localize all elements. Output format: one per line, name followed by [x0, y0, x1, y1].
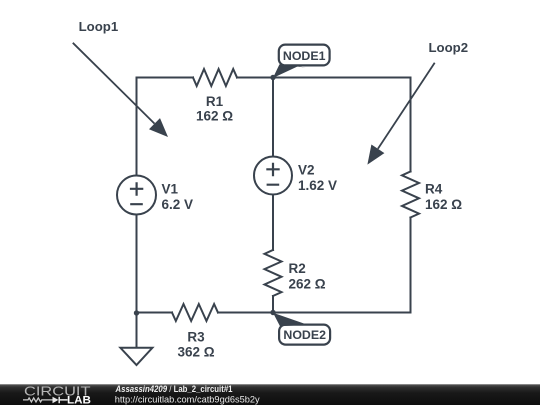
footer bar — [0, 384, 540, 405]
svg-text:R2: R2 — [289, 261, 306, 276]
svg-text:R3: R3 — [187, 330, 205, 345]
svg-text:162 Ω: 162 Ω — [196, 109, 233, 124]
label NODE2 — [273, 313, 330, 345]
svg-text:6.2 V: 6.2 V — [162, 197, 194, 212]
wire left branch lower — [136, 215, 138, 314]
svg-text:Loop2: Loop2 — [429, 40, 469, 55]
wire top-left horizontal — [137, 77, 193, 79]
wire middle branch upper — [272, 78, 274, 157]
value label R2 — [289, 261, 326, 292]
wire ground stub — [136, 313, 138, 348]
resistor R1 — [193, 69, 237, 86]
node junction dot NODE2 — [270, 310, 275, 315]
svg-text:Assassin4209 / Lab_2_circuit#1: Assassin4209 / Lab_2_circuit#1 — [115, 384, 233, 394]
svg-text:LAB: LAB — [67, 395, 91, 405]
wire middle branch mid — [272, 195, 274, 251]
logo diode — [53, 397, 59, 403]
label NODE1 — [273, 45, 330, 78]
svg-text:http://circuitlab.com/catb9gd6: http://circuitlab.com/catb9gd6s5b2y — [115, 395, 260, 405]
node junction dot ground — [134, 310, 139, 315]
svg-text:V1: V1 — [162, 181, 179, 196]
svg-text:162 Ω: 162 Ω — [425, 197, 462, 212]
wire bottom-left horizontal — [137, 312, 173, 314]
svg-text:362 Ω: 362 Ω — [177, 345, 214, 360]
loop annotation Loop2 — [367, 40, 468, 165]
svg-text:1.62 V: 1.62 V — [298, 178, 337, 193]
value label V1 — [162, 181, 194, 212]
wire right branch upper — [410, 78, 412, 172]
wire middle branch bottom — [272, 296, 274, 313]
wire right branch lower — [410, 218, 412, 313]
wire left branch upper — [136, 78, 138, 176]
logo wire and resistor squiggle — [23, 398, 52, 402]
svg-text:R4: R4 — [425, 182, 443, 197]
ground — [120, 348, 152, 365]
wire top-right horizontal — [237, 77, 411, 79]
value label R3 — [177, 330, 214, 360]
svg-text:NODE2: NODE2 — [283, 328, 326, 342]
voltage source V2 — [254, 157, 292, 195]
value label V2 — [298, 162, 337, 193]
wire bottom middle horizontal — [218, 312, 273, 314]
node junction dot NODE1 — [270, 75, 275, 80]
svg-text:R1: R1 — [206, 94, 224, 109]
wire bottom-right horizontal — [273, 312, 411, 314]
svg-text:Loop1: Loop1 — [79, 19, 119, 34]
value label R4 — [425, 182, 462, 213]
svg-text:V2: V2 — [298, 162, 315, 177]
svg-text:NODE1: NODE1 — [283, 49, 326, 63]
resistor R2 — [265, 250, 282, 296]
loop annotation Loop1 — [73, 19, 168, 137]
voltage source V1 — [117, 176, 156, 215]
svg-text:262 Ω: 262 Ω — [289, 277, 326, 292]
resistor R4 — [402, 172, 419, 218]
resistor R3 — [172, 304, 218, 321]
value label R1 — [196, 94, 233, 124]
